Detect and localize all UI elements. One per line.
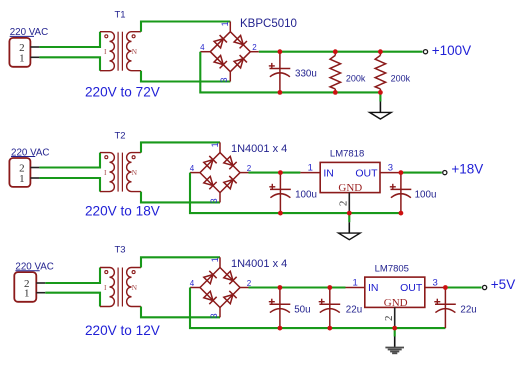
- LM7818 GND pin 2: [348, 193, 350, 214]
- svg-text:3: 3: [432, 278, 437, 289]
- transformer T3: [100, 244, 141, 306]
- LM7805 pin 3 stub: [425, 287, 446, 289]
- capacitor C2b 100u: [390, 173, 437, 214]
- wire top rail: [249, 286, 346, 288]
- junction: [399, 170, 404, 175]
- junction: [399, 211, 404, 216]
- svg-text:1: 1: [210, 257, 220, 262]
- wire top rail: [249, 172, 301, 174]
- junction: [378, 90, 383, 95]
- svg-text:3: 3: [388, 163, 393, 174]
- resistor R2 200k: [375, 52, 410, 93]
- transformer T1: [100, 10, 141, 71]
- output port +100V: [423, 43, 471, 58]
- junction: [347, 211, 352, 216]
- wire connector to transformer (bottom): [45, 293, 100, 307]
- svg-text:OUT: OUT: [355, 167, 378, 179]
- capacitor C3b 22u: [319, 288, 362, 329]
- wire connector to transformer (top): [39, 32, 100, 47]
- svg-text:4: 4: [190, 164, 195, 173]
- junction: [333, 49, 338, 54]
- svg-text:1N4001 x 4: 1N4001 x 4: [231, 143, 287, 155]
- svg-text:3: 3: [209, 313, 219, 318]
- wire bridge negative to bottom rail: [190, 288, 445, 329]
- svg-text:200k: 200k: [391, 73, 411, 83]
- svg-text:LM7818: LM7818: [330, 149, 364, 160]
- wire bridge negative to bottom rail: [200, 52, 380, 93]
- svg-text:1: 1: [220, 21, 230, 26]
- svg-text:N: N: [132, 283, 138, 292]
- svg-text:2: 2: [252, 43, 257, 52]
- junction: [378, 49, 383, 54]
- connector J2 220 VAC: [9, 147, 49, 187]
- svg-text:1N4001 x 4: 1N4001 x 4: [231, 258, 287, 270]
- junction: [443, 285, 448, 290]
- junction: [278, 326, 283, 331]
- connector J3 220 VAC: [14, 262, 54, 302]
- junction: [327, 285, 332, 290]
- LM7818 pin 3 stub: [380, 172, 401, 174]
- svg-text:1: 1: [24, 288, 30, 300]
- svg-text:KBPC5010: KBPC5010: [240, 18, 297, 30]
- svg-text:+100V: +100V: [432, 43, 471, 58]
- svg-text:200k: 200k: [346, 73, 366, 83]
- svg-text:2: 2: [247, 279, 252, 288]
- svg-text:2: 2: [247, 164, 252, 173]
- svg-text:T2: T2: [114, 131, 125, 142]
- capacitor C3a 50u: [269, 288, 311, 329]
- svg-text:2: 2: [338, 201, 350, 207]
- bridge rectifier D2: [190, 142, 287, 203]
- transformer T2: [100, 131, 141, 192]
- svg-text:T3: T3: [114, 244, 125, 255]
- svg-text:N: N: [132, 168, 138, 177]
- junction: [392, 326, 397, 331]
- svg-text:GND: GND: [384, 297, 408, 309]
- LM7805 pin 1 stub: [346, 287, 365, 289]
- svg-text:22u: 22u: [346, 304, 362, 315]
- svg-text:220V to 12V: 220V to 12V: [85, 323, 160, 338]
- svg-text:220V to 72V: 220V to 72V: [85, 85, 160, 100]
- svg-text:22u: 22u: [460, 304, 476, 315]
- wire transformer to bridge AC bottom: [141, 192, 220, 203]
- regulator U LM7818: [320, 149, 380, 214]
- wire transformer to bridge AC bottom: [141, 307, 220, 318]
- svg-text:OUT: OUT: [400, 282, 423, 294]
- wire transformer to bridge AC top: [141, 142, 220, 152]
- svg-text:1: 1: [308, 163, 313, 174]
- junction: [278, 90, 283, 95]
- connector J1 220 VAC: [9, 27, 48, 67]
- svg-text:100u: 100u: [295, 189, 317, 200]
- capacitor C2a 100u: [269, 173, 317, 214]
- svg-text:GND: GND: [338, 182, 362, 194]
- wire top rail: [401, 172, 442, 174]
- wire connector to transformer (top): [39, 153, 100, 168]
- wire top rail: [259, 51, 423, 53]
- svg-text:+18V: +18V: [451, 162, 483, 177]
- junction: [327, 326, 332, 331]
- svg-text:100u: 100u: [415, 189, 437, 200]
- svg-text:3: 3: [209, 198, 219, 203]
- svg-text:LM7805: LM7805: [375, 263, 409, 274]
- resistor R1 200k: [330, 52, 366, 93]
- bridge rectifier D3: [190, 257, 287, 318]
- svg-text:2: 2: [383, 316, 395, 322]
- wire transformer to bridge AC bottom: [141, 71, 230, 82]
- wire transformer to bridge AC top: [141, 22, 230, 32]
- earth ground symbol: [385, 328, 404, 353]
- junction: [278, 170, 283, 175]
- ground symbol: [370, 92, 392, 119]
- ground symbol: [339, 213, 361, 240]
- junction: [278, 211, 283, 216]
- svg-text:T1: T1: [114, 10, 125, 21]
- wire connector to transformer (bottom): [39, 57, 100, 70]
- LM7818 pin 1 stub: [300, 172, 320, 174]
- svg-text:50u: 50u: [294, 304, 310, 315]
- wire bridge negative to bottom rail: [190, 173, 401, 214]
- svg-text:1: 1: [19, 173, 25, 185]
- output port +5V: [483, 277, 516, 292]
- junction: [333, 90, 338, 95]
- wire connector to transformer (top): [45, 268, 100, 284]
- svg-text:4: 4: [190, 279, 195, 288]
- svg-text:1: 1: [19, 52, 25, 64]
- junction: [278, 49, 283, 54]
- svg-text:IN: IN: [323, 167, 334, 179]
- output port +18V: [443, 162, 484, 177]
- capacitor C3c 22u: [434, 288, 476, 329]
- svg-text:220V to 18V: 220V to 18V: [85, 204, 160, 219]
- svg-text:1: 1: [210, 142, 220, 147]
- svg-text:IN: IN: [368, 282, 379, 294]
- svg-text:4: 4: [200, 43, 205, 52]
- svg-text:N: N: [132, 47, 138, 56]
- svg-text:1: 1: [353, 278, 358, 289]
- svg-text:3: 3: [219, 77, 229, 82]
- LM7805 GND pin 2: [394, 307, 396, 328]
- wire top rail: [445, 286, 481, 288]
- wire transformer to bridge AC top: [141, 257, 220, 267]
- svg-text:330u: 330u: [295, 69, 317, 80]
- svg-text:+5V: +5V: [491, 277, 515, 292]
- wire connector to transformer (bottom): [39, 178, 100, 192]
- regulator U LM7805: [365, 263, 425, 328]
- capacitor C1a 330u: [269, 52, 317, 93]
- junction: [278, 285, 283, 290]
- bridge rectifier D1: [200, 18, 297, 83]
